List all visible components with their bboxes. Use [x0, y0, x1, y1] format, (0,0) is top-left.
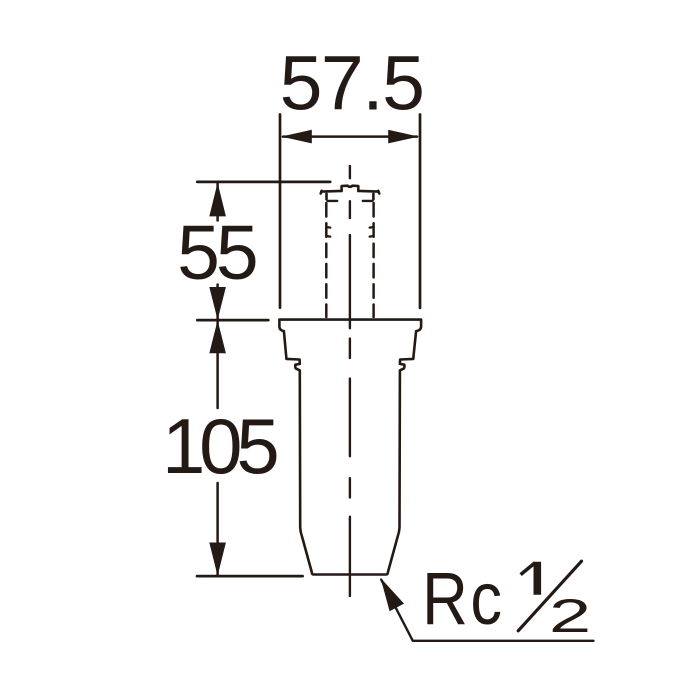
svg-text:57.5: 57.5	[280, 40, 424, 126]
svg-text:55: 55	[177, 210, 256, 296]
svg-text:105: 105	[162, 402, 277, 490]
svg-text:2: 2	[549, 590, 591, 642]
svg-text:Rc: Rc	[422, 556, 504, 640]
